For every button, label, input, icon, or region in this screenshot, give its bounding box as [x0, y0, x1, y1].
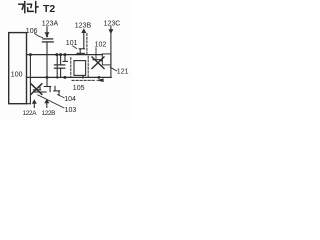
title 기간 T2 — [19, 2, 38, 13]
wire box-bottom extension — [27, 103, 31, 105]
node dots on bus1 center — [55, 53, 58, 56]
X mark over 122A (off) — [31, 84, 42, 95]
svg-text:T2: T2 — [43, 3, 55, 15]
leader 103 — [38, 95, 64, 108]
wire capacitor to bus2 — [46, 42, 48, 78]
svg-text:123B: 123B — [75, 22, 92, 29]
svg-text:122A: 122A — [23, 110, 38, 117]
svg-text:122B: 122B — [42, 110, 56, 117]
element box 102 — [102, 54, 111, 65]
svg-text:123C: 123C — [104, 20, 121, 27]
svg-text:123A: 123A — [42, 21, 59, 28]
wire 105 to bus2 — [82, 75, 84, 77]
arrow current left on bus2 — [96, 79, 104, 83]
node dot on bus1 at scan line — [29, 53, 32, 56]
transistor 122B — [46, 77, 48, 86]
capacitor 106 — [43, 38, 53, 40]
node dot on bus2 right — [98, 76, 101, 79]
leader 104 — [58, 95, 64, 98]
dashed current path right of 101 — [86, 34, 88, 55]
node dot on bus2 — [46, 76, 49, 79]
capacitor 103/104 plates — [54, 64, 64, 66]
arrow 123C (current, down) + supply wire — [110, 26, 112, 77]
wire bus1 — [27, 54, 103, 56]
svg-text:100: 100 — [11, 72, 23, 79]
transistor 101 — [79, 48, 84, 50]
wire vertical scan line — [29, 55, 31, 104]
arrow leader 122A — [32, 99, 37, 104]
arrow 123B (current, up) — [81, 28, 86, 33]
arrow leader 122B — [44, 99, 49, 104]
dashed current path right of 105 — [87, 56, 89, 76]
svg-text:105: 105 — [73, 85, 85, 92]
wire bus2 — [27, 76, 112, 78]
svg-text:106: 106 — [26, 28, 38, 35]
transistor 121 — [95, 48, 97, 60]
dashed current path along bus2 — [72, 79, 96, 81]
transistor 122A — [34, 89, 41, 91]
svg-text:103: 103 — [65, 107, 77, 114]
leader 106 — [35, 33, 43, 37]
dashed current path left of 105 — [70, 58, 72, 77]
element box 105 — [74, 61, 86, 76]
transistor stub — [64, 55, 66, 62]
X mark over 121 (off) — [92, 57, 104, 69]
capacitor lower wire — [60, 68, 62, 77]
wire node to bus2 — [56, 55, 58, 78]
node dots on bus2 center — [56, 76, 58, 78]
arrow 123A (current, down) — [46, 27, 48, 33]
svg-text:101: 101 — [66, 40, 78, 47]
leader 121 — [110, 67, 116, 71]
box 100 (driver block) — [9, 33, 27, 104]
leader 101 — [73, 46, 77, 49]
svg-text:121: 121 — [117, 68, 129, 75]
svg-text:104: 104 — [64, 96, 76, 103]
capacitor 103/104 upper wire — [60, 55, 62, 65]
